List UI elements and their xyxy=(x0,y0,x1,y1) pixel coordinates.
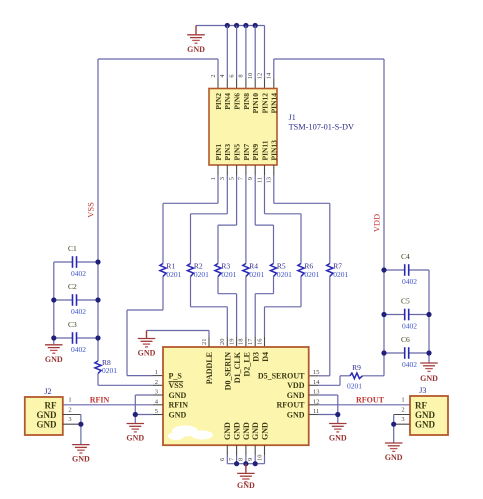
J2 reference xyxy=(44,387,51,396)
junction dots bottom bus xyxy=(234,461,258,466)
wire J1 pin1 to R1 xyxy=(163,175,218,264)
connector J3 xyxy=(410,396,448,435)
svg-text:0201: 0201 xyxy=(194,270,209,279)
svg-text:0402: 0402 xyxy=(71,345,86,354)
IC bottom pin numbers 6-10 xyxy=(219,455,263,462)
wire J1 pin13 to R7 xyxy=(274,175,330,264)
J3 reference xyxy=(419,386,426,395)
svg-text:18: 18 xyxy=(238,339,245,346)
svg-text:C2: C2 xyxy=(68,282,77,291)
ground (IC bottom) xyxy=(237,464,255,490)
svg-text:VDD: VDD xyxy=(372,214,382,232)
svg-text:0201: 0201 xyxy=(249,270,264,279)
wire J1 pin7 to R4 xyxy=(245,175,247,264)
wire IC pin13 pin11 to ground xyxy=(309,395,341,423)
svg-text:P_S: P_S xyxy=(169,371,183,380)
svg-text:10: 10 xyxy=(256,455,263,462)
VSS rail wire xyxy=(97,59,99,361)
svg-text:0201: 0201 xyxy=(102,366,117,375)
node VSS label xyxy=(86,202,96,218)
capacitor C4 xyxy=(384,252,429,286)
svg-text:9: 9 xyxy=(247,177,254,180)
right cap bus wire xyxy=(428,270,430,363)
svg-text:21: 21 xyxy=(201,339,208,346)
wire R3 to IC pin19 xyxy=(218,277,237,348)
connector J1 xyxy=(209,89,277,166)
J3 pin numbers xyxy=(401,397,404,424)
svg-text:GND: GND xyxy=(420,374,438,383)
svg-text:0201: 0201 xyxy=(333,270,348,279)
svg-text:2: 2 xyxy=(155,379,158,386)
svg-text:10: 10 xyxy=(247,73,254,80)
IC pin21 PADDLE wire to ground xyxy=(147,331,210,348)
svg-text:RFIN: RFIN xyxy=(90,395,110,404)
wire R2 to IC pin20 xyxy=(191,277,228,348)
svg-text:D0_SERIN: D0_SERIN xyxy=(224,352,233,390)
svg-text:PIN13: PIN13 xyxy=(270,140,279,161)
svg-text:C6: C6 xyxy=(401,335,410,344)
svg-text:12: 12 xyxy=(256,73,263,80)
svg-text:J2: J2 xyxy=(44,387,51,396)
capacitor C3 xyxy=(54,320,98,354)
svg-text:PIN14: PIN14 xyxy=(270,93,279,114)
svg-text:PIN10: PIN10 xyxy=(251,93,260,114)
svg-text:GND: GND xyxy=(287,410,305,419)
svg-text:GND: GND xyxy=(169,410,187,419)
capacitor C6 xyxy=(384,335,429,369)
svg-text:20: 20 xyxy=(219,339,226,346)
junction dots on top bus xyxy=(225,23,258,28)
svg-text:PADDLE: PADDLE xyxy=(205,352,214,384)
svg-text:GND: GND xyxy=(260,422,269,440)
wire R8 to IC pin2 VSS xyxy=(98,374,163,386)
IC U1 body xyxy=(163,347,309,445)
svg-text:8: 8 xyxy=(238,74,245,77)
J1 top pin stubs xyxy=(218,79,274,89)
J1 top row pin names PIN2-PIN14 xyxy=(214,93,279,114)
svg-text:PIN2: PIN2 xyxy=(214,93,223,110)
wire IC pin3 pin5 to ground xyxy=(133,395,163,423)
wire pin2 to VSS rail xyxy=(98,58,218,60)
wire R5 to IC pin17 xyxy=(255,277,273,348)
svg-text:1: 1 xyxy=(68,397,71,404)
svg-text:GND: GND xyxy=(45,355,63,364)
svg-text:C5: C5 xyxy=(401,297,410,306)
ground (left cap bus) xyxy=(45,345,63,364)
svg-text:1: 1 xyxy=(155,369,158,376)
ground (J3) xyxy=(385,443,403,462)
ground (J2) xyxy=(72,445,90,464)
svg-text:GND: GND xyxy=(187,45,205,54)
wire R4 to IC pin18 xyxy=(245,277,247,348)
resistor R9 xyxy=(347,363,363,391)
ground (paddle) xyxy=(138,339,156,358)
svg-text:GND: GND xyxy=(287,391,305,400)
svg-text:RFOUT: RFOUT xyxy=(356,395,385,404)
ground (top, J1 even pins) xyxy=(187,26,205,54)
svg-text:J3: J3 xyxy=(419,386,426,395)
wire J1 pin9 to R5 xyxy=(255,175,273,264)
svg-text:RFIN: RFIN xyxy=(169,401,189,410)
resistor R7 xyxy=(327,262,349,279)
white artifact blob xyxy=(168,426,213,441)
IC right pin numbers 15-11 xyxy=(313,369,320,415)
svg-text:C1: C1 xyxy=(68,244,77,253)
junction dots right caps xyxy=(381,267,431,355)
IC left pin numbers 1-5 xyxy=(155,369,159,415)
connector J2 xyxy=(25,397,63,435)
svg-text:11: 11 xyxy=(256,177,263,183)
svg-text:17: 17 xyxy=(247,338,254,345)
svg-text:GND: GND xyxy=(223,422,232,440)
wire pin14 to VDD rail xyxy=(274,58,384,60)
svg-text:PIN6: PIN6 xyxy=(233,93,242,110)
svg-text:PIN8: PIN8 xyxy=(242,93,251,110)
IC right pin names xyxy=(258,371,305,419)
ground (IC left pins) xyxy=(126,424,144,443)
junction dots left caps xyxy=(51,259,100,340)
node VDD label xyxy=(372,214,382,232)
svg-text:RF: RF xyxy=(45,400,57,410)
wire RFIN from J2 to IC pin4 xyxy=(63,404,163,406)
ground (right cap bus) xyxy=(420,363,438,383)
svg-text:1: 1 xyxy=(210,177,217,180)
svg-text:19: 19 xyxy=(228,339,235,346)
svg-text:0402: 0402 xyxy=(71,269,86,278)
svg-text:PIN4: PIN4 xyxy=(223,93,232,110)
wire RFOUT from IC pin12 to J3 xyxy=(309,404,410,406)
svg-text:13: 13 xyxy=(266,177,273,184)
svg-text:2: 2 xyxy=(401,407,404,414)
svg-text:GND: GND xyxy=(72,455,90,464)
J1 top pin numbers 2-14 xyxy=(210,72,273,79)
J1 bottom pin numbers 1-13 xyxy=(210,176,273,183)
wire R6 to IC pin16 xyxy=(265,277,302,348)
capacitor C2 xyxy=(54,282,98,316)
svg-text:D5_SEROUT: D5_SEROUT xyxy=(258,371,305,380)
svg-text:R9: R9 xyxy=(352,363,361,372)
IC top pin numbers xyxy=(201,338,263,345)
svg-text:0201: 0201 xyxy=(304,270,319,279)
VDD rail wire xyxy=(383,59,385,376)
IC bottom pins 6-10 wires xyxy=(227,445,264,464)
svg-text:PIN12: PIN12 xyxy=(260,93,269,114)
svg-text:2: 2 xyxy=(210,74,217,77)
svg-text:GND: GND xyxy=(37,419,58,429)
svg-text:GND: GND xyxy=(415,419,436,429)
svg-text:0201: 0201 xyxy=(166,270,181,279)
svg-text:0201: 0201 xyxy=(221,270,236,279)
svg-text:D4: D4 xyxy=(261,352,270,362)
svg-text:D1_CLK: D1_CLK xyxy=(233,351,242,383)
J1 value TSM-107-01-S-DV xyxy=(289,122,354,131)
capacitor C5 xyxy=(384,297,429,331)
svg-text:0402: 0402 xyxy=(71,307,86,316)
svg-text:GND: GND xyxy=(251,422,260,440)
svg-text:GND: GND xyxy=(169,391,187,400)
svg-text:GND: GND xyxy=(233,422,242,440)
svg-text:5: 5 xyxy=(228,177,235,180)
resistor R4 xyxy=(243,262,265,279)
svg-text:PIN7: PIN7 xyxy=(242,144,251,161)
capacitor C1 xyxy=(54,244,98,278)
svg-text:0402: 0402 xyxy=(402,360,417,369)
svg-text:1: 1 xyxy=(401,397,404,404)
svg-text:GND: GND xyxy=(329,434,347,443)
svg-text:VDD: VDD xyxy=(287,381,305,390)
svg-text:GND: GND xyxy=(138,349,156,358)
J1 bottom pin stubs xyxy=(218,165,274,175)
IC left pin names xyxy=(169,371,189,419)
resistor R3 xyxy=(215,262,237,279)
top GND bus wire xyxy=(196,25,265,27)
J3 pin names xyxy=(415,400,436,429)
wire IC pin14 VDD via R9 xyxy=(309,376,384,386)
J1 reference designator xyxy=(289,113,296,122)
svg-text:PIN9: PIN9 xyxy=(251,144,260,161)
J1 bottom row pin names PIN1-PIN13 xyxy=(214,140,279,161)
svg-text:GND: GND xyxy=(126,434,144,443)
node RFIN label xyxy=(90,395,110,404)
resistor R8 xyxy=(95,358,117,375)
svg-text:2: 2 xyxy=(68,407,71,414)
svg-text:0402: 0402 xyxy=(402,277,417,286)
svg-text:C4: C4 xyxy=(401,252,410,261)
J2 gnd pins wires xyxy=(63,415,84,445)
wire R1 to IC pin1 P_S xyxy=(127,277,163,376)
resistor R2 xyxy=(187,262,209,279)
svg-text:PIN1: PIN1 xyxy=(214,144,223,161)
J3 gnd pins wires xyxy=(391,415,410,443)
IC top pin names xyxy=(205,351,270,390)
wire J1 pin5 to R3 xyxy=(218,175,237,264)
J2 pin names xyxy=(37,400,58,429)
svg-text:PIN5: PIN5 xyxy=(233,144,242,161)
resistor R1 xyxy=(160,262,182,279)
left cap bus wire xyxy=(53,262,55,344)
svg-text:9: 9 xyxy=(247,458,254,461)
svg-text:PIN11: PIN11 xyxy=(260,140,269,160)
svg-text:C3: C3 xyxy=(68,320,77,329)
svg-text:14: 14 xyxy=(266,72,273,79)
ground (IC right pins) xyxy=(329,424,347,443)
svg-text:0402: 0402 xyxy=(402,322,417,331)
svg-text:VSS: VSS xyxy=(169,381,184,390)
wire R7 to IC pin15 xyxy=(309,277,330,376)
svg-text:0201: 0201 xyxy=(347,382,362,391)
svg-text:VSS: VSS xyxy=(86,202,96,218)
svg-text:J1: J1 xyxy=(289,113,296,122)
svg-text:D3: D3 xyxy=(252,352,261,362)
svg-text:3: 3 xyxy=(401,416,404,423)
svg-text:3: 3 xyxy=(68,416,71,423)
svg-text:GND: GND xyxy=(242,422,251,440)
svg-text:RFOUT: RFOUT xyxy=(277,401,306,410)
svg-text:RF: RF xyxy=(415,400,427,410)
J2 pin numbers xyxy=(68,397,71,424)
svg-text:GND: GND xyxy=(237,481,255,490)
svg-text:TSM-107-01-S-DV: TSM-107-01-S-DV xyxy=(289,122,354,131)
svg-text:3: 3 xyxy=(219,177,226,180)
svg-text:GND: GND xyxy=(385,453,403,462)
wire J1 pin11 to R6 xyxy=(265,175,302,264)
svg-text:PIN3: PIN3 xyxy=(223,144,232,161)
svg-text:15: 15 xyxy=(313,369,320,376)
svg-text:0201: 0201 xyxy=(277,270,292,279)
wire J1 pin3 to R2 xyxy=(191,175,228,264)
wires J1 even pins up to bus xyxy=(218,26,274,79)
resistor R5 xyxy=(270,262,292,279)
resistor R6 xyxy=(298,262,320,279)
node RFOUT label xyxy=(356,395,385,404)
svg-text:D2_LE: D2_LE xyxy=(242,352,251,376)
IC bottom pin names GND x5 xyxy=(223,422,269,440)
svg-text:8: 8 xyxy=(238,458,245,461)
svg-text:16: 16 xyxy=(256,338,263,345)
